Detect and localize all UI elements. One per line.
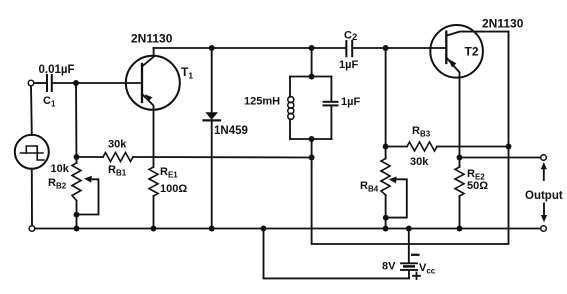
svg-text:0.01µF: 0.01µF xyxy=(39,64,75,76)
svg-text:50Ω: 50Ω xyxy=(467,180,488,192)
svg-text:RB1: RB1 xyxy=(108,164,127,178)
svg-text:RE1: RE1 xyxy=(160,166,178,180)
svg-text:1N459: 1N459 xyxy=(214,125,248,137)
svg-text:8V: 8V xyxy=(382,261,396,273)
svg-text:100Ω: 100Ω xyxy=(160,183,187,195)
svg-text:1µF: 1µF xyxy=(341,96,360,108)
svg-text:C1: C1 xyxy=(43,95,56,109)
svg-text:RB3: RB3 xyxy=(412,125,431,139)
svg-text:RB2: RB2 xyxy=(48,177,67,191)
svg-text:2N1130: 2N1130 xyxy=(482,16,524,30)
svg-text:1µF: 1µF xyxy=(339,59,358,71)
svg-text:T2: T2 xyxy=(465,45,479,59)
svg-text:30k: 30k xyxy=(108,139,127,151)
svg-text:30k: 30k xyxy=(410,156,429,168)
svg-text:Vcc: Vcc xyxy=(419,262,436,276)
svg-text:C2: C2 xyxy=(344,30,357,44)
svg-text:10k: 10k xyxy=(51,163,70,175)
svg-text:Output: Output xyxy=(525,190,563,202)
svg-text:RB4: RB4 xyxy=(360,180,379,194)
svg-text:T1: T1 xyxy=(181,65,193,81)
svg-text:2N1130: 2N1130 xyxy=(131,32,173,46)
svg-text:125mH: 125mH xyxy=(244,96,280,108)
